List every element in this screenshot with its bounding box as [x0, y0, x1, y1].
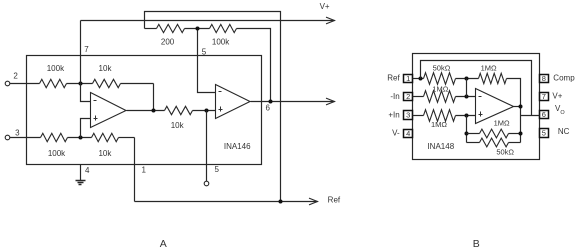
svg-text:NC: NC: [558, 127, 570, 136]
svg-text:200: 200: [161, 37, 175, 46]
svg-text:5: 5: [214, 165, 219, 174]
svg-text:2: 2: [406, 92, 410, 101]
svg-text:7: 7: [542, 92, 546, 101]
svg-text:5: 5: [542, 128, 546, 137]
svg-text:7: 7: [84, 45, 89, 54]
svg-text:A: A: [160, 238, 167, 250]
svg-text:B: B: [473, 238, 480, 250]
svg-text:Ref: Ref: [328, 196, 341, 205]
svg-text:10k: 10k: [171, 121, 185, 130]
svg-text:100k: 100k: [47, 64, 65, 73]
svg-text:V+: V+: [552, 91, 562, 100]
svg-text:5: 5: [202, 48, 207, 57]
svg-text:Comp: Comp: [553, 73, 575, 82]
svg-text:V+: V+: [320, 2, 330, 11]
svg-text:1: 1: [406, 74, 410, 83]
svg-text:2: 2: [13, 71, 18, 80]
svg-text:6: 6: [265, 104, 270, 113]
svg-text:4: 4: [85, 166, 90, 175]
svg-text:50kΩ: 50kΩ: [433, 63, 451, 72]
svg-text:100k: 100k: [48, 149, 66, 158]
svg-text:V-: V-: [392, 128, 400, 137]
svg-text:8: 8: [542, 74, 546, 83]
svg-text:10k: 10k: [99, 64, 113, 73]
svg-text:Ref: Ref: [387, 74, 400, 83]
svg-text:4: 4: [406, 129, 410, 138]
svg-text:10k: 10k: [98, 149, 112, 158]
svg-text:6: 6: [542, 110, 546, 119]
svg-text:1: 1: [141, 166, 146, 175]
svg-text:1MΩ: 1MΩ: [481, 64, 497, 73]
svg-text:+In: +In: [388, 110, 399, 119]
svg-text:100k: 100k: [212, 37, 230, 46]
svg-text:1MΩ: 1MΩ: [494, 119, 510, 128]
svg-text:3: 3: [406, 111, 410, 120]
svg-text:1MΩ: 1MΩ: [432, 85, 448, 94]
svg-text:50kΩ: 50kΩ: [496, 147, 514, 156]
svg-text:1MΩ: 1MΩ: [431, 120, 447, 129]
svg-text:-In: -In: [390, 92, 399, 101]
svg-text:INA146: INA146: [224, 142, 251, 151]
svg-text:INA148: INA148: [427, 142, 454, 151]
svg-text:3: 3: [15, 129, 20, 138]
